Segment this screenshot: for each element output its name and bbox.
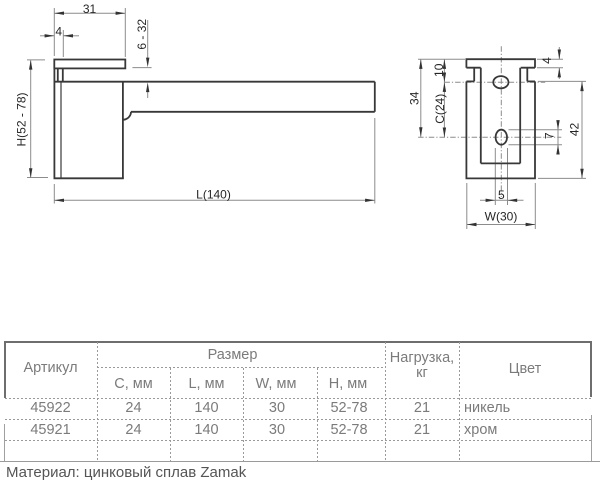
svg-text:4: 4 <box>540 57 554 64</box>
svg-text:4: 4 <box>55 25 62 39</box>
bracket side view inner wall <box>60 82 62 179</box>
svg-text:34: 34 <box>408 91 422 105</box>
dimension 4 line <box>40 35 54 37</box>
header C mm <box>97 377 170 391</box>
table dotted row line 2 <box>5 440 591 441</box>
wire extension flange bottom <box>132 67 151 69</box>
table dotted row line 1 <box>5 419 591 420</box>
table dotted col line 4 <box>317 368 318 461</box>
svg-text:C(24): C(24) <box>433 94 447 124</box>
bracket front view channel bottom <box>481 162 520 164</box>
dimension 34 line <box>420 59 422 137</box>
table thin right border <box>591 415 592 461</box>
arrow H top <box>29 60 32 70</box>
svg-text:6 - 32: 6 - 32 <box>135 19 149 50</box>
table dotted row line header split <box>97 367 385 368</box>
hole upper slot <box>493 76 508 88</box>
arrow 10 bottom <box>443 73 446 83</box>
hole lower slot <box>496 130 507 145</box>
arrow 6-32 upper <box>146 58 149 68</box>
header Нагрузка кг <box>385 351 459 365</box>
table dotted col line 6 <box>459 342 460 461</box>
arrow 42 bottom <box>580 169 583 179</box>
header W mm <box>243 377 309 391</box>
arrow 7 top <box>556 120 559 130</box>
wire extension H top <box>27 59 45 61</box>
arrow 6-32 lower <box>146 82 149 92</box>
svg-text:H(52 - 78): H(52 - 78) <box>15 92 29 146</box>
table dotted col line 2 <box>170 368 171 461</box>
bracket side view arm bottom <box>131 111 375 113</box>
dimension H line <box>30 60 32 177</box>
table dotted row line header bottom <box>5 398 591 399</box>
dimension 6-32 line lower <box>147 91 149 98</box>
arrow 4r bottom <box>558 68 561 78</box>
dimension L line <box>54 199 375 201</box>
bracket front view body outline <box>466 81 535 178</box>
arrow 4 left <box>45 34 55 37</box>
bracket side view flange <box>54 60 125 69</box>
arrow 4 right <box>63 34 73 37</box>
arrow C top <box>443 82 446 92</box>
dimension W line <box>467 224 536 226</box>
arrow W right <box>526 223 536 226</box>
wire extension L right <box>374 118 376 204</box>
bracket side view bottom <box>54 177 124 179</box>
node centerline hole1 horizontal <box>444 81 545 83</box>
table thin left border <box>4 424 5 461</box>
dimension 6-32 line upper <box>147 20 149 58</box>
wire extension line 4 right <box>62 30 64 57</box>
header L mm <box>170 377 243 391</box>
bracket front view post outer left <box>473 68 475 82</box>
table dotted col line 5 <box>385 342 386 461</box>
wire extension 42 bottom <box>538 177 586 179</box>
bracket side view post lines <box>57 68 59 81</box>
bracket side view arm right end <box>374 82 376 112</box>
arrow 5 right <box>508 199 518 202</box>
dimension 5 line <box>480 199 524 201</box>
arrow 31 left <box>54 12 64 15</box>
dimension 31 line <box>54 12 125 14</box>
header Цвет <box>459 362 591 376</box>
table thick right border <box>590 341 592 397</box>
svg-text:L(140): L(140) <box>196 188 231 202</box>
arrow 31 right <box>116 12 126 15</box>
bracket front view plate bottom segments <box>466 67 535 69</box>
arrow 34 bottom <box>419 127 422 137</box>
bracket front view channel left <box>480 68 482 164</box>
arrow L left <box>54 199 64 202</box>
wire extension 5 right <box>507 148 509 205</box>
header Артикул <box>4 361 97 375</box>
dimension 42 line <box>581 81 583 178</box>
header H mm <box>317 377 379 391</box>
bracket front view body top left <box>466 80 474 82</box>
wire extension line 31 left <box>53 8 55 56</box>
arrow 34 top <box>419 59 422 69</box>
wire extension H bottom <box>27 177 48 179</box>
svg-text:31: 31 <box>83 2 97 16</box>
arrow 4r top <box>558 50 561 60</box>
node centerline hole2 horizontal <box>418 136 561 138</box>
wire extension 5 left <box>494 148 496 205</box>
wire extension plate bottom right <box>537 67 563 69</box>
wire extension plate top right <box>537 58 563 60</box>
footer solid line <box>0 461 600 462</box>
svg-text:7: 7 <box>543 132 557 139</box>
row 45921 <box>4 423 97 437</box>
wire extension 42 top <box>538 80 586 82</box>
footer material note <box>6 466 246 480</box>
bracket side view arm top <box>54 81 374 83</box>
node centerline vertical front view <box>500 46 502 197</box>
wire extension hole2 top <box>509 129 563 131</box>
bracket front view post outer right <box>526 68 528 82</box>
bracket front view top plate <box>466 59 535 67</box>
table thick top border <box>4 341 592 343</box>
wire extension plate top left <box>418 58 465 60</box>
header Размер <box>97 348 368 362</box>
svg-text:10: 10 <box>432 63 446 77</box>
wire extension line 31 right <box>124 8 126 57</box>
arrow W left <box>467 223 477 226</box>
row 45922 <box>4 401 97 415</box>
arrow 5 left <box>486 199 496 202</box>
arrow 10 top <box>443 59 446 69</box>
bracket side view left edge <box>53 68 55 178</box>
dimension 4 right line <box>558 47 560 59</box>
bracket front view channel right <box>519 68 521 164</box>
arrow H bottom <box>29 168 32 178</box>
dimension 10 and C line <box>443 59 445 137</box>
wire extension L left <box>53 184 55 204</box>
bracket side view fillet <box>123 112 131 120</box>
dimension 7 line <box>557 121 559 155</box>
wire extension hole2 bottom <box>509 144 563 146</box>
arrow 42 top <box>580 81 583 91</box>
table thick left border <box>4 341 6 398</box>
arrow 7 bottom <box>556 145 559 155</box>
svg-text:W(30): W(30) <box>485 210 518 224</box>
wire extension W left <box>466 183 468 229</box>
table dotted col line 1 <box>97 342 98 461</box>
svg-text:42: 42 <box>568 123 582 137</box>
arrow C bottom <box>443 128 446 138</box>
wire extension W right <box>534 183 536 229</box>
arrow L right <box>365 199 375 202</box>
bracket side view right edge <box>122 82 124 179</box>
table dotted col line 3 <box>243 368 244 461</box>
svg-text:5: 5 <box>498 188 505 202</box>
bracket front view body top right <box>527 80 535 82</box>
